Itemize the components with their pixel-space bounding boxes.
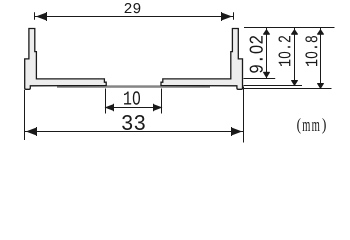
dimension 10 (middle gap) bbox=[106, 89, 162, 114]
tape (gray strip under base) bbox=[57, 85, 210, 88]
label 10 bbox=[124, 91, 140, 104]
label 10.8 bbox=[305, 36, 317, 66]
label 29 bbox=[125, 3, 141, 13]
dimension 10.2 (vertical) bbox=[291, 28, 297, 86]
label 10.2 bbox=[278, 36, 290, 66]
label 9.02 bbox=[250, 36, 263, 73]
right-side extension lines bbox=[244, 28, 335, 89]
frame right wall and bottom flange bbox=[161, 29, 243, 90]
dimension 33 (bottom overall) bbox=[25, 87, 244, 143]
dimension 29 (top) bbox=[35, 12, 234, 21]
unit label (mm) bbox=[297, 118, 300, 134]
dimension 10.8 (vertical) bbox=[317, 28, 323, 89]
dimension 9.02 (vertical) bbox=[263, 28, 269, 79]
label 33 bbox=[122, 115, 144, 130]
frame left wall and bottom flange bbox=[25, 29, 107, 90]
